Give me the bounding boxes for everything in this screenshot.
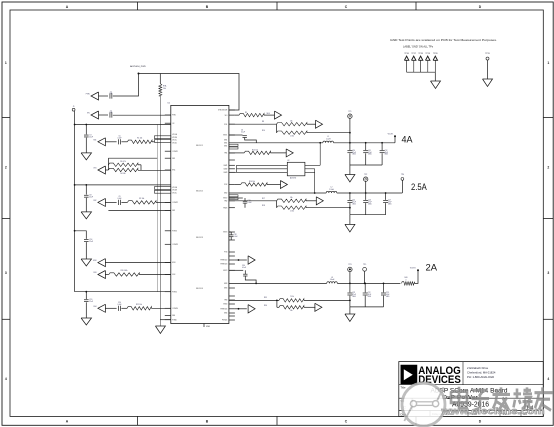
svg-text:4: 4 (547, 377, 549, 381)
svg-text:V1S: V1S (93, 168, 96, 170)
svg-text:1: 1 (5, 61, 7, 65)
svg-text:PG3: PG3 (224, 252, 227, 254)
svg-text:1uF: 1uF (110, 112, 113, 114)
svg-text:EN1: EN1 (172, 170, 175, 172)
wire out2 cap bus (350, 214, 386, 216)
wire TP2 stem (365, 181, 367, 193)
svg-text:TP20: TP20 (433, 53, 438, 55)
svg-text:0805: 0805 (368, 154, 372, 156)
wire FB3 sense (229, 299, 279, 301)
flag FB1 (271, 152, 287, 154)
svg-text:TP4: TP4 (401, 174, 404, 176)
wire isense sw1 (319, 143, 321, 166)
svg-text:1.0uH: 1.0uH (326, 139, 331, 141)
resistor R3 divider top (108, 163, 137, 166)
resistor R4 divider bottom (108, 168, 137, 171)
svg-text:SYNC/MODE: SYNC/MODE (218, 110, 227, 112)
wire out3 cap bus (350, 306, 384, 308)
regulator U1 ADP5054 (171, 105, 229, 323)
capacitor C1 (99, 95, 109, 97)
flag PWRGD2 (235, 259, 247, 261)
svg-text:BUCK1: BUCK1 (196, 145, 204, 147)
svg-text:2A: 2A (426, 262, 438, 273)
flag SS2 row (98, 198, 106, 206)
mux U2 (237, 164, 288, 166)
svg-text:0.1uF: 0.1uF (117, 198, 121, 200)
svg-text:47uF: 47uF (368, 202, 372, 204)
zone tick bottom 2 (276, 416, 278, 425)
resistor R40 0ohm (402, 282, 415, 285)
svg-text:C19: C19 (89, 299, 92, 301)
wire sense to vout1 (307, 132, 350, 134)
svg-text:ADP5054_PWD: ADP5054_PWD (130, 65, 146, 68)
svg-text:R35: R35 (264, 297, 267, 299)
ground TP bank (431, 81, 441, 89)
capacitor C14 input ch3 (84, 239, 89, 241)
flag SS1 row (98, 138, 106, 146)
svg-text:SW1: SW1 (224, 146, 227, 148)
svg-text:SNS3: SNS3 (223, 304, 227, 306)
svg-text:PH: 1-800-ANALOGD: PH: 1-800-ANALOGD (467, 375, 494, 379)
capacitor C15 out2 (349, 193, 351, 200)
wire SW1 rail (229, 142, 323, 144)
svg-text:PVIN4: PVIN4 (172, 291, 177, 293)
resistor R17 pg2 top (229, 200, 277, 202)
svg-text:0805: 0805 (352, 204, 356, 206)
svg-text:C10: C10 (352, 150, 355, 152)
svg-text:VOUT1: VOUT1 (388, 134, 394, 136)
svg-text:ILIM1: ILIM1 (223, 165, 227, 167)
connector J1 input (72, 108, 75, 111)
svg-text:1: 1 (547, 61, 549, 65)
wire isense sw2 (314, 169, 316, 193)
svg-text:0805: 0805 (368, 204, 372, 206)
ground C8 (81, 212, 91, 219)
svg-text:PWRGD4: PWRGD4 (221, 309, 228, 311)
capacitor C10 out1 (349, 143, 351, 150)
wire FB2 row (108, 209, 170, 211)
svg-text:LABEL 'GND' ON ALL TPs: LABEL 'GND' ON ALL TPs (403, 44, 433, 48)
svg-text:0805: 0805 (386, 296, 390, 298)
title block outline (399, 362, 544, 417)
flag CLKOUT (264, 114, 275, 116)
svg-text:TP16: TP16 (404, 53, 409, 55)
pin block sw2 (229, 195, 238, 197)
svg-text:VOUT3: VOUT3 (410, 267, 416, 269)
svg-text:U2: U2 (287, 160, 289, 162)
svg-text:C17: C17 (388, 200, 391, 202)
zone tick top 3 (415, 2, 417, 10)
svg-text:0: 0 (406, 279, 407, 281)
capacitor C5 (105, 141, 116, 143)
ground out2 (349, 215, 351, 225)
capacitor C21 out3 (349, 283, 351, 292)
capacitor C2 (99, 114, 109, 116)
svg-text:TP5: TP5 (363, 264, 366, 266)
zone tick right 1 (543, 117, 553, 119)
flag FB3 (304, 306, 315, 308)
svg-text:SS3: SS3 (93, 272, 96, 274)
svg-text:22uF: 22uF (89, 136, 93, 138)
svg-text:FB4: FB4 (172, 315, 175, 317)
svg-text:TP17: TP17 (411, 53, 416, 55)
flag PG1 (307, 123, 316, 125)
svg-text:0805: 0805 (385, 154, 389, 156)
resistor R7A 10k (159, 74, 161, 84)
svg-text:SW2: SW2 (224, 193, 227, 195)
capacitor C18 bst4 (229, 231, 231, 233)
inductor L3 1.0uH (327, 282, 338, 284)
svg-text:R10: R10 (262, 130, 265, 132)
svg-text:SW4: SW4 (224, 313, 227, 315)
svg-text:FB1: FB1 (224, 153, 227, 155)
svg-text:0.1uF: 0.1uF (241, 131, 245, 133)
ground C14 (81, 259, 91, 266)
svg-text:GND Test Points are scattered: GND Test Points are scattered on PCB for… (390, 38, 497, 42)
capacitor C17 out2 (385, 193, 387, 200)
svg-text:TP1: TP1 (348, 111, 351, 113)
svg-text:0.1uF: 0.1uF (234, 236, 238, 238)
capacitor C13 bst2 (229, 197, 243, 199)
flag FB2 (267, 184, 281, 186)
zone tick left 2 (2, 217, 10, 219)
svg-text:FB2S: FB2S (223, 207, 227, 209)
ground TP15 (483, 79, 493, 87)
svg-text:SW3: SW3 (224, 283, 227, 285)
wire TP ground bus (407, 71, 436, 73)
svg-text:VID1B: VID1B (172, 137, 176, 139)
resistor R9 10k (121, 201, 127, 203)
svg-text:47uF: 47uF (352, 294, 356, 296)
capacitor C3 input ch1 (85, 125, 87, 135)
node VOUT3 2A (415, 271, 419, 284)
resistor R10 1.74k (276, 124, 278, 133)
zone tick bottom 3 (415, 416, 417, 425)
capacitor C23 out3 (383, 283, 385, 292)
wire row A to top rail (113, 74, 139, 97)
flag PVIN row A (91, 92, 99, 100)
svg-text:TP19: TP19 (425, 53, 430, 55)
svg-text:0805: 0805 (352, 154, 356, 156)
svg-text:22uF: 22uF (89, 301, 93, 303)
svg-text:ILIM2: ILIM2 (223, 169, 227, 171)
svg-text:C21: C21 (352, 292, 355, 294)
wire FB1 to U1 (138, 169, 171, 171)
zone tick right 2 (543, 217, 553, 219)
wire out1 cap bus (350, 164, 382, 166)
title block dividers (462, 362, 464, 385)
svg-text:4: 4 (5, 377, 7, 381)
svg-text:Title: Title (401, 386, 406, 390)
ground out1 (349, 165, 351, 175)
svg-text:R14 10k: R14 10k (252, 149, 258, 151)
wire TP1 stem (349, 118, 351, 142)
wire TP bus drop (434, 72, 436, 81)
svg-text:C22: C22 (368, 292, 371, 294)
svg-text:SW1: SW1 (224, 140, 227, 142)
svg-text:1uF: 1uF (110, 93, 113, 95)
node VOUT1 4A (394, 137, 396, 143)
svg-text:C23: C23 (386, 292, 389, 294)
flag EN row B (91, 111, 99, 119)
ground C19 (81, 318, 91, 325)
svg-text:R4 10k: R4 10k (120, 173, 125, 175)
svg-text:C16: C16 (368, 200, 371, 202)
svg-text:TP2: TP2 (364, 174, 367, 176)
flag VOUT1 sense (98, 166, 106, 174)
svg-text:J1: J1 (73, 106, 75, 108)
inductor L1 1.0uH (323, 141, 334, 143)
U2 right wiring (305, 164, 320, 166)
svg-text:C14: C14 (89, 239, 92, 241)
capacitor C22 out3 (364, 283, 366, 292)
wire SS3 to U1 (139, 274, 171, 276)
ground out3 (349, 307, 351, 314)
resistor R35 71.5k (279, 299, 304, 302)
svg-text:TP18: TP18 (418, 53, 423, 55)
svg-text:47uF: 47uF (385, 152, 389, 154)
wire top rail to sync (139, 74, 240, 111)
svg-text:22uF: 22uF (89, 197, 93, 199)
capacitor C9 (105, 201, 116, 203)
svg-text:47uF: 47uF (386, 294, 390, 296)
wire EN3 to U1 (105, 262, 170, 264)
svg-text:FB2: FB2 (172, 210, 175, 212)
ground C3 (81, 153, 91, 160)
svg-text:0805: 0805 (352, 296, 356, 298)
zone tick left 3 (2, 318, 10, 320)
capacitor C16 out2 (365, 193, 367, 200)
svg-text:0.1uF: 0.1uF (242, 267, 246, 269)
svg-text:47uF: 47uF (352, 202, 356, 204)
wire R7A pulldown vertical (159, 96, 161, 326)
svg-text:PVIN3: PVIN3 (172, 231, 177, 233)
wire SS4 to U1 (151, 307, 170, 309)
wire SW3 rail (229, 282, 327, 284)
zone tick left 1 (2, 117, 10, 119)
ground pulldown (155, 326, 165, 334)
capacitor C6 bst1 (229, 134, 243, 136)
svg-text:BUCK4: BUCK4 (196, 288, 204, 290)
svg-text:0.1uF: 0.1uF (117, 138, 121, 140)
flag SS3 row (98, 271, 106, 279)
svg-text:0.1uF: 0.1uF (117, 304, 121, 306)
resistor R5 clkout (235, 114, 239, 116)
capacitor C11 out1 (365, 143, 367, 150)
svg-text:PG2: PG2 (224, 184, 227, 186)
watermark link icon (402, 383, 445, 426)
svg-text:47uF: 47uF (368, 294, 372, 296)
capacitor C20 (105, 307, 116, 309)
svg-text:R18: R18 (262, 205, 265, 207)
svg-text:FB2: FB2 (224, 201, 227, 203)
svg-text:COMP1: COMP1 (172, 151, 178, 153)
svg-text:www.elecfans.com: www.elecfans.com (440, 406, 544, 416)
pin block ch2 vid (155, 187, 171, 190)
svg-text:R17: R17 (262, 198, 265, 200)
svg-text:COMP3: COMP3 (172, 244, 178, 246)
svg-text:C30: C30 (242, 265, 245, 267)
svg-text:22uF: 22uF (89, 241, 93, 243)
wire TP15 drop (487, 60, 489, 79)
wire FB1 loop (108, 157, 157, 159)
resistor R36 10k (276, 300, 278, 307)
svg-text:ILIM3: ILIM3 (223, 172, 227, 174)
svg-text:R22 10k: R22 10k (136, 304, 142, 306)
svg-text:1.74k: 1.74k (290, 136, 294, 138)
svg-text:VID2B: VID2B (172, 190, 176, 192)
pin block sw1 (229, 144, 238, 146)
inductor L2 2.2uH (326, 191, 337, 193)
svg-text:BUCK3: BUCK3 (196, 237, 204, 239)
svg-text:10k: 10k (290, 197, 293, 199)
svg-text:C3: C3 (89, 134, 91, 136)
wire epad to ground (160, 319, 171, 321)
svg-text:SS4: SS4 (93, 306, 96, 308)
svg-text:SS2: SS2 (93, 200, 96, 202)
svg-text:1.74k: 1.74k (290, 211, 294, 213)
wire TP5 stem (364, 271, 366, 283)
svg-text:PG1: PG1 (224, 124, 227, 126)
svg-text:2: 2 (547, 166, 549, 170)
svg-text:10k: 10k (290, 120, 293, 122)
svg-text:SW1: SW1 (224, 143, 227, 145)
svg-text:R9 10k: R9 10k (139, 198, 144, 200)
flag EN3 row (98, 259, 106, 267)
watermark chinese characters (451, 387, 553, 411)
svg-text:PWRGD2: PWRGD2 (221, 260, 228, 262)
svg-text:R16 10k: R16 10k (249, 181, 255, 183)
svg-text:R20 100k: R20 100k (121, 270, 128, 272)
svg-text:C6: C6 (241, 129, 243, 131)
svg-text:R5: R5 (245, 112, 247, 114)
wire PVIN2 rail (75, 184, 171, 186)
junction ADP5054_PWD (138, 73, 140, 75)
svg-text:PGND4: PGND4 (222, 320, 227, 322)
zone tick top 2 (276, 2, 278, 10)
svg-text:C11: C11 (368, 150, 371, 152)
svg-text:C18: C18 (234, 234, 237, 236)
svg-text:C1: C1 (110, 91, 112, 93)
svg-text:2.2uH: 2.2uH (329, 189, 334, 191)
wire SW2 rail (229, 192, 326, 194)
svg-text:BUCK2: BUCK2 (196, 191, 204, 193)
zone tick top 1 (137, 2, 139, 10)
resistor R16 fb2 (235, 184, 241, 186)
capacitor C19 input ch4 (85, 292, 87, 299)
wire input bus vertical (74, 111, 76, 292)
U1 bottom pad stub (203, 324, 205, 328)
resistor R20 100k (105, 274, 108, 276)
svg-text:COMP2: COMP2 (172, 202, 178, 204)
svg-text:C12: C12 (385, 150, 388, 152)
flag PG2 (306, 200, 317, 202)
wire sense to vout2 (306, 207, 350, 209)
svg-text:4A: 4A (402, 134, 414, 145)
svg-text:R40: R40 (405, 277, 408, 279)
zone tick bottom 1 (137, 416, 139, 425)
flag SS4 row (98, 304, 106, 312)
svg-text:47uF: 47uF (352, 152, 356, 154)
wire fb bus vertical (156, 125, 158, 292)
svg-text:FB3: FB3 (224, 300, 227, 302)
svg-text:SS3: SS3 (172, 274, 175, 276)
zone tick right 3 (543, 318, 553, 320)
flag PWRGD4 (235, 308, 247, 310)
wire VOUT2 rail (337, 192, 403, 194)
svg-text:47uF: 47uF (388, 202, 392, 204)
wire PG1 row (229, 123, 277, 125)
svg-text:C5: C5 (118, 136, 120, 138)
svg-text:FB1: FB1 (172, 158, 175, 160)
wire input branch ch3 (75, 231, 87, 239)
svg-text:10k: 10k (290, 310, 293, 312)
svg-text:BST3: BST3 (223, 232, 227, 234)
U1 left pin stubs (165, 114, 171, 116)
wire TP4 stem (401, 180, 403, 193)
svg-text:SW3: SW3 (224, 288, 227, 290)
svg-text:10k: 10k (163, 88, 166, 90)
U1 right pin stubs (229, 109, 235, 111)
capacitor C8 input ch2 (85, 185, 87, 195)
svg-text:C15: C15 (352, 200, 355, 202)
svg-text:0805: 0805 (368, 296, 372, 298)
svg-text:BST1: BST1 (223, 135, 227, 137)
wire VOUT3 rail (337, 282, 400, 284)
resistor R14 fb1 (229, 152, 244, 154)
svg-text:2.5A: 2.5A (411, 181, 427, 192)
svg-text:C2: C2 (110, 110, 112, 112)
capacitor C30 bst3 (229, 269, 243, 271)
svg-text:COMP4: COMP4 (172, 308, 178, 310)
capacitor C12 out1 (381, 143, 383, 150)
svg-text:EN3: EN3 (172, 262, 175, 264)
title block row lines (399, 384, 544, 386)
wire PVIN1 rail (75, 124, 171, 126)
svg-text:3: 3 (5, 271, 7, 275)
wire PVIN4 rail (75, 291, 171, 293)
svg-text:R36: R36 (264, 305, 267, 307)
svg-text:0805: 0805 (388, 204, 392, 206)
svg-text:3: 3 (547, 271, 549, 275)
svg-text:C8: C8 (89, 195, 91, 197)
svg-text:BST3: BST3 (223, 270, 227, 272)
svg-text:C20: C20 (118, 302, 121, 304)
svg-text:R8: R8 (262, 121, 264, 123)
svg-text:0.1uF: 0.1uF (248, 202, 252, 204)
svg-text:PWRGD3: PWRGD3 (221, 264, 228, 266)
svg-text:C9: C9 (118, 196, 120, 198)
resistor R1 10k (121, 141, 127, 143)
wire TP3 stem (349, 272, 351, 284)
svg-text:EN3: EN3 (93, 260, 96, 262)
svg-text:TP3: TP3 (348, 264, 351, 266)
svg-text:TP15: TP15 (485, 53, 490, 55)
svg-text:R3 4.7k: R3 4.7k (120, 161, 126, 163)
svg-text:47uF: 47uF (368, 152, 372, 154)
pin block ch1 vid (155, 136, 171, 139)
svg-text:BST2: BST2 (223, 198, 227, 200)
svg-text:SS1: SS1 (93, 140, 96, 142)
svg-text:1.0uH: 1.0uH (330, 279, 335, 281)
wire row B to U1 (113, 114, 171, 116)
resistor R18 1.74k (276, 201, 278, 208)
svg-text:R1 10k: R1 10k (137, 138, 142, 140)
resistor R22 10k (121, 307, 127, 309)
svg-text:2: 2 (5, 166, 7, 170)
svg-text:71.5k: 71.5k (290, 296, 294, 298)
logo Analog Devices (401, 365, 417, 384)
